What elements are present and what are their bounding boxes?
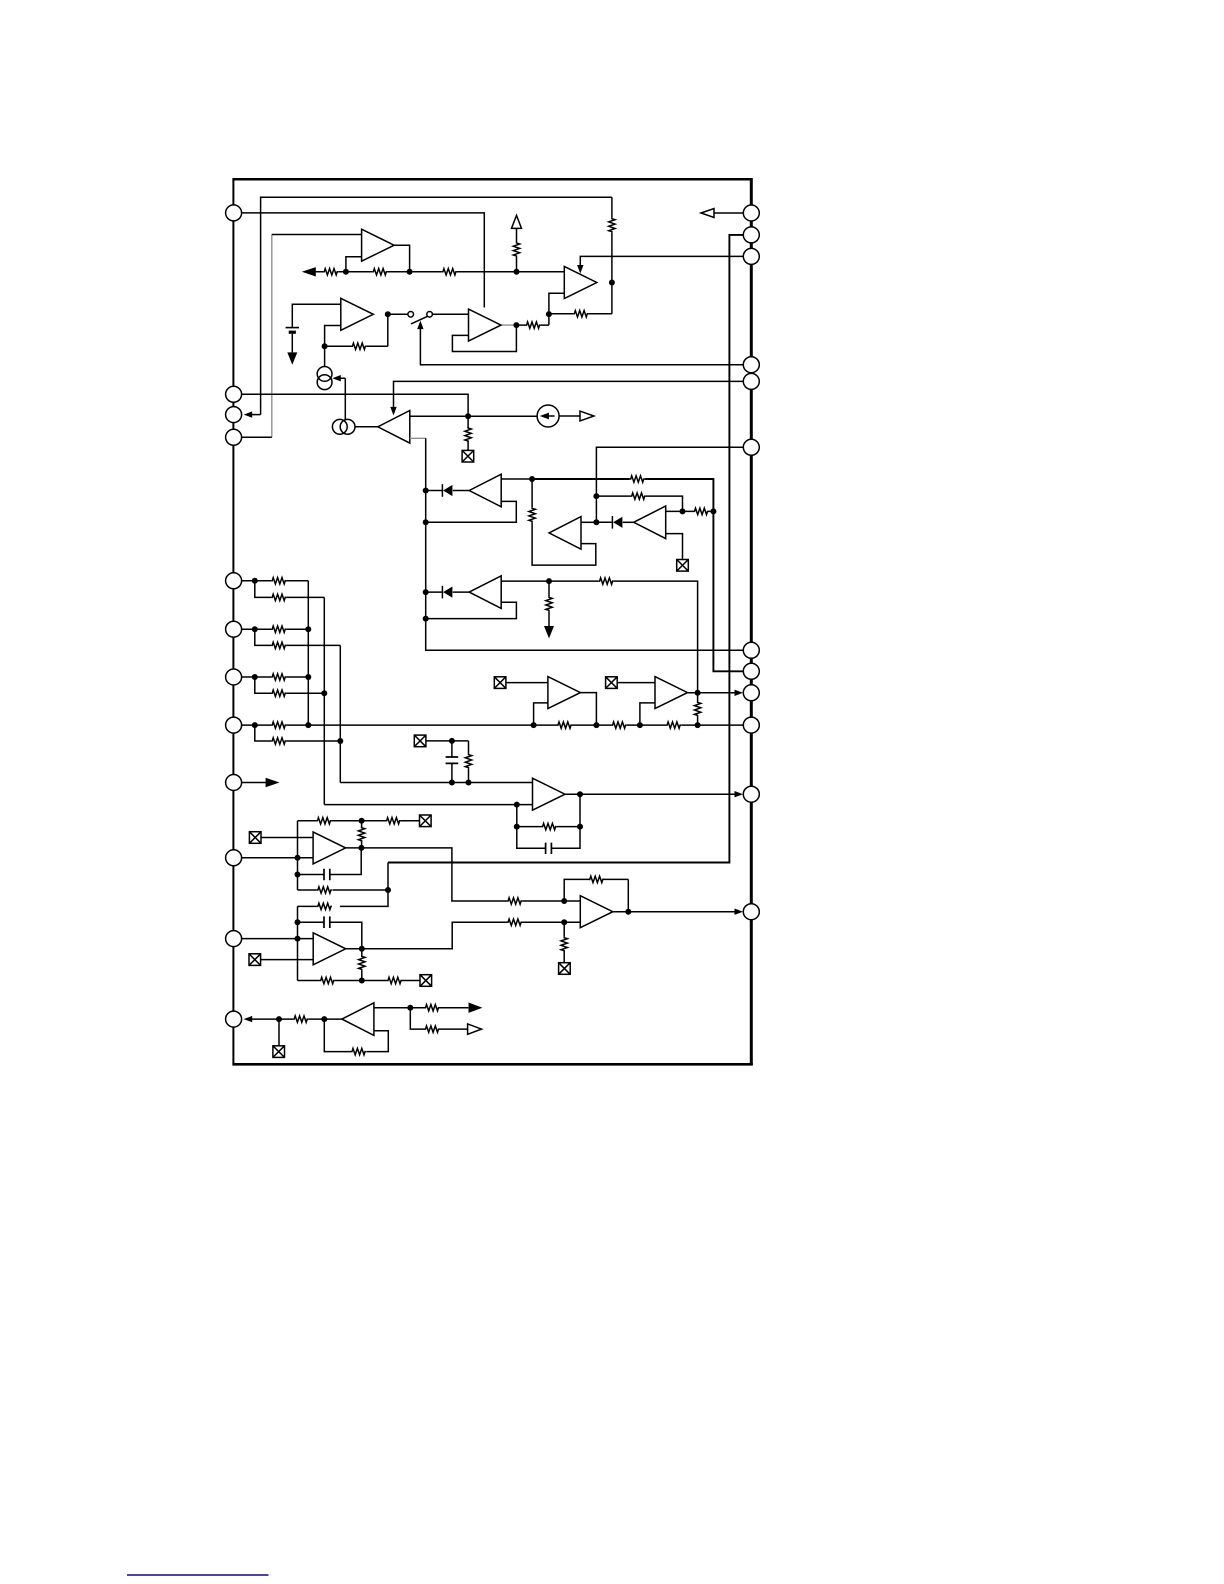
pin 5 (226, 573, 242, 589)
node y581 (546, 578, 552, 584)
op-amp U11 buffer B (655, 677, 688, 709)
resistor R29 (542, 823, 557, 829)
pin K right (743, 786, 759, 802)
wire diode D2 net (596, 521, 612, 523)
wire U9 wrap (426, 602, 517, 618)
ground arrow (287, 352, 297, 364)
resistor R7 (526, 322, 541, 328)
arrow down into U4 (577, 265, 583, 274)
wire U15 fb (564, 879, 628, 911)
resistor R16 (271, 578, 286, 584)
wire U12 fb resistor net (517, 794, 580, 826)
wire node479 down through R11 (532, 479, 596, 565)
wire line y804 to U12 lower (324, 804, 532, 806)
node pin7 lower join (321, 690, 327, 696)
diode D1 (442, 484, 452, 497)
wire node to resistor R9 (467, 416, 469, 450)
resistor R33 (507, 898, 522, 904)
node U16 out (321, 1016, 327, 1022)
arrow up switch control (417, 321, 423, 330)
node U12 lower input (514, 802, 520, 808)
resistor R3 (442, 269, 457, 275)
pad X1 (462, 450, 474, 462)
resistor R31 (358, 827, 364, 842)
pin F right (743, 439, 759, 455)
node pin8 join (305, 722, 311, 728)
wire U11 wrap to y725 (640, 703, 655, 725)
wire U2 fb resistor leads (325, 314, 388, 346)
battery plate long (286, 327, 299, 329)
resistor R38 (359, 955, 365, 970)
wire U10 wrap to y725 (534, 703, 548, 725)
resistor R12 (631, 493, 646, 499)
pin 7 (226, 669, 242, 685)
node diode junction (593, 519, 599, 525)
pin H right (743, 663, 759, 679)
current source CS2 circle a (332, 419, 347, 434)
wire fb top to pad X7 (362, 820, 420, 822)
wire U15 out to pin L (613, 911, 736, 913)
node U1 out (407, 269, 413, 275)
wire cap C2 net (298, 848, 362, 875)
pin C right (743, 248, 759, 264)
wire pin 6 upper branch (242, 628, 309, 630)
wire CS1 from U2 fb node (324, 346, 326, 366)
op-amp U9 limiter2 (469, 576, 501, 609)
pad X8 (249, 954, 261, 966)
wire pin 10 to U13 lower input (242, 857, 314, 859)
wire switch control from pin D (420, 329, 743, 365)
resistor R4 (513, 242, 519, 257)
resistor R43 (425, 1026, 440, 1032)
op-amp U4 (564, 267, 597, 299)
wire pad X6 to U13 (261, 837, 313, 839)
resistor R10 (630, 476, 645, 482)
IC outline border (232, 179, 234, 1064)
wire U5 upper input (410, 415, 468, 417)
node u8 upper (680, 508, 686, 514)
op-amp U6 limiter (469, 474, 501, 507)
node U15 out (625, 909, 631, 915)
wire cap C1 stems (451, 741, 453, 783)
pad X2 (677, 560, 689, 572)
pad X6 (249, 832, 261, 844)
wire rail to diode D1 (426, 490, 443, 492)
resistor R6 (573, 311, 588, 317)
wire pad to U11 (617, 682, 655, 684)
footer link rule (127, 1574, 269, 1576)
current source CS3 circle (537, 405, 559, 427)
diode D2 (612, 516, 622, 529)
wire cap C3 net (298, 922, 362, 949)
node chain/bias (514, 269, 520, 275)
node pin8 (252, 722, 258, 728)
pin L right (743, 904, 759, 920)
current source CS1 circle b (317, 375, 332, 390)
wire U4 inverting wrap (549, 293, 564, 325)
wire R38 stems (361, 949, 363, 981)
wire node to CS3 (468, 415, 537, 417)
battery plate short (289, 331, 296, 334)
resistor R23 (271, 738, 286, 744)
node U14 cap tee (295, 919, 301, 925)
node fb left (514, 824, 520, 830)
node pin6 (252, 626, 258, 632)
wire supply stem (516, 228, 518, 271)
resistor R8 (351, 343, 366, 349)
wire line y782 to U12 upper (340, 782, 532, 784)
switch SW1 contact right (427, 312, 433, 318)
op-amp U2 (341, 298, 374, 330)
wire U3 out gray stub (500, 324, 516, 326)
wire U6 wrap (426, 501, 517, 522)
diode D3 (442, 586, 452, 599)
resistor R22 (271, 722, 286, 728)
op-amp U15 (580, 896, 613, 928)
arrow into pin 12 (244, 1016, 253, 1022)
capacitor C4 (546, 843, 552, 854)
node U11 wrap (637, 722, 643, 728)
pin 12 (226, 1011, 242, 1027)
resistor R45 (317, 887, 332, 893)
arrow left into CS1 (332, 375, 341, 381)
wire U3out to R7 to tee (516, 324, 548, 326)
resistor R19 (271, 642, 286, 648)
node rail diode 2 (423, 589, 429, 595)
wire U14 bottom fb line (298, 980, 421, 982)
resistor R25 (612, 722, 627, 728)
wire pin 2 line (242, 394, 469, 416)
wire pin 4 stub (242, 436, 272, 438)
wire pin 12 line (252, 1018, 342, 1020)
wire pin 7 lower branch (255, 677, 325, 693)
node R27 bottom (695, 722, 701, 728)
node fb right (577, 824, 583, 830)
op-amp U10 buffer A (548, 677, 581, 709)
arrow into pin 3 (252, 414, 261, 416)
resistor R11 (529, 507, 535, 522)
node pin7 (252, 674, 258, 680)
pad X7 (420, 815, 432, 827)
resistor R18 (271, 626, 286, 632)
wire D1 to U6 (453, 490, 469, 492)
node RC bottom res (466, 780, 472, 786)
node pin5 (252, 578, 258, 584)
pad X9 (420, 975, 432, 987)
node y496 (593, 493, 599, 499)
pin 1 (226, 205, 242, 221)
pin 3 (226, 407, 242, 423)
wire U14 out right and up (346, 922, 581, 949)
wire main rail down left (426, 438, 744, 650)
open arrow right (monitor out) (580, 411, 594, 421)
op-amp U1 (362, 229, 395, 261)
wire net line2 from pin 3 top corner (261, 197, 612, 414)
wire pin 8 upper branch (242, 724, 309, 726)
node U2 out (385, 311, 391, 317)
capacitor C1 (446, 757, 459, 763)
wire U1 output (394, 245, 410, 272)
op-amp U13 (313, 832, 346, 864)
pin E right (743, 373, 759, 389)
wire U16 fb loop (324, 1019, 388, 1052)
wire U13 top fb line (298, 820, 362, 822)
arrow into pin L (735, 909, 744, 915)
resistor R28 (465, 754, 471, 769)
wire pin A arrow line (714, 212, 743, 214)
arrow into pin I (735, 690, 744, 696)
pin 11 (226, 931, 242, 947)
wire U10 out (581, 693, 597, 726)
resistor R15 (546, 596, 552, 611)
wire U16 second line (410, 1008, 467, 1029)
wire U12 out to pin K (565, 793, 735, 795)
node pin8 lower join (337, 738, 343, 744)
node U14 out (359, 946, 365, 952)
op-amp U5 VCA (378, 411, 410, 444)
pin 10 (226, 850, 242, 866)
wire y890 resistor line (298, 889, 389, 891)
arrow left output (big filled) (302, 267, 316, 276)
current source CS1 circle a (317, 367, 332, 382)
node fb top (359, 818, 365, 824)
switch SW1 contact left (408, 312, 414, 318)
node fb bottom (359, 978, 365, 984)
resistor R39 (320, 977, 335, 983)
resistor R35 (589, 876, 604, 882)
resistor R37 (317, 903, 332, 909)
node U13 input (295, 855, 301, 861)
wire pin 9 stub (242, 782, 267, 784)
node U15 lower in (561, 919, 567, 925)
resistor R32 (386, 818, 401, 824)
pin G right (743, 642, 759, 658)
wire y862 corner down (387, 863, 389, 891)
node pin7 join (305, 674, 311, 680)
wire R31 stems (361, 821, 363, 848)
wire line2 drop + resistor R5 stem (611, 197, 613, 313)
resistor R26 (666, 722, 681, 728)
pin 8 (226, 717, 242, 733)
node U13 cap tee (295, 872, 301, 878)
wire rail to diode D3 (426, 591, 443, 593)
node pad tee (276, 1016, 282, 1022)
node U15 upper in (561, 898, 567, 904)
arrow into pin K (735, 791, 744, 797)
node fb tee (546, 311, 552, 317)
node U4 out (609, 280, 615, 286)
wire U4 fb (549, 313, 612, 315)
op-amp U8 (634, 506, 666, 539)
node RC top (449, 738, 455, 744)
wire U13 out right and down (346, 848, 581, 901)
resistor R5 (609, 218, 615, 233)
wire U3 unity wrap (452, 325, 516, 351)
wire U2 upper input (292, 304, 341, 327)
resistor R13 (694, 508, 709, 514)
wire U1 upper input (272, 234, 362, 236)
wire CS3 to open arrow (559, 415, 580, 417)
wire pad X3 to RC (426, 741, 469, 783)
resistor R36 (561, 937, 567, 952)
node rail wrap 1 (423, 519, 429, 525)
resistor R21 (271, 690, 286, 696)
wire pad X11 stem (278, 1019, 280, 1046)
resistor R14 (599, 578, 614, 584)
wire battery to ground (291, 334, 293, 353)
node U14 input (295, 936, 301, 942)
node U10 out join (593, 722, 599, 728)
op-amp U3 (469, 309, 502, 341)
pin D right (743, 357, 759, 373)
resistor R41 (293, 1016, 308, 1022)
wire y479 to rail x713 (532, 479, 743, 671)
resistor R30 (316, 818, 331, 824)
wire U1 inverting wrap (346, 257, 362, 272)
wire VCA control from pin E (394, 381, 744, 407)
op-amp U14 (313, 933, 346, 965)
node rail x713 (710, 508, 716, 514)
wire pin 8 lower branch (255, 725, 341, 741)
pad X11 (273, 1046, 285, 1058)
wire y862 line to right rail (388, 235, 743, 863)
pin I right (743, 685, 759, 701)
resistor R27 (694, 701, 700, 716)
wire pin 6 lower branch (255, 629, 341, 782)
wire pin C line to U4 (580, 256, 743, 265)
arrow big filled right (469, 1003, 483, 1013)
resistor R2 (372, 269, 387, 275)
node U2 fb (322, 343, 328, 349)
wire R36 stems (563, 922, 565, 963)
resistor R9 (465, 427, 471, 442)
node U3 out (513, 322, 519, 328)
wire resistor chain y=271.8 (315, 271, 564, 273)
wire U5 lower input connector (410, 437, 426, 439)
wire D3 to U9 (453, 591, 469, 593)
open arrow up (supply) (512, 215, 522, 228)
node pin6 join (305, 626, 311, 632)
resistor R44 (351, 1048, 366, 1054)
wire pad to U10 (506, 682, 548, 684)
pad X10 (559, 963, 571, 975)
arrow down into U5 (390, 407, 396, 416)
pin A right (743, 205, 759, 221)
wire y890 to y906 loop (298, 890, 389, 981)
wire D2 to U8 apex (623, 521, 634, 523)
pad X5 (606, 677, 618, 689)
pin B right (743, 227, 759, 243)
node rail wrap 2 (423, 616, 429, 622)
wire gray vertical pin 4 to op-amp U1 input (271, 235, 273, 438)
resistor R17 (271, 594, 286, 600)
wire U8 lower input to pad (666, 534, 683, 560)
pin 6 (226, 621, 242, 637)
wire CS1 control (338, 378, 346, 420)
wire y496 resistor R12 to corner (596, 496, 682, 511)
node U1 fb (343, 269, 349, 275)
wire U2 inverting wrap (325, 326, 341, 347)
wire R27 stems (697, 693, 699, 725)
wire U8 upper to rail via R13 (683, 510, 714, 512)
wire CS2 to U5 output (355, 426, 378, 428)
open arrow right bottom (468, 1024, 482, 1034)
capacitor C2 (324, 869, 330, 881)
node rail diode 1 (423, 488, 429, 494)
arrow right pin 9 (266, 778, 280, 787)
node U11 out (695, 690, 701, 696)
op-amp U12 summing (533, 778, 566, 810)
wire R15 stem (548, 581, 550, 626)
wire summing line y725 (308, 724, 743, 726)
capacitor C3 (324, 916, 330, 928)
wire U8 upper input (666, 510, 683, 512)
open arrow left pin A (701, 209, 714, 218)
current source CS3 inner arrow (545, 415, 555, 417)
resistor R42 (425, 1005, 440, 1011)
wire pin 5 upper branch (242, 581, 309, 725)
resistor R20 (271, 674, 286, 680)
node U16 upper (407, 1005, 413, 1011)
wire switch to U3 (432, 313, 468, 315)
op-amp U7 (549, 517, 581, 550)
pad X4 (494, 677, 506, 689)
wire pin 11 to U14 (242, 938, 314, 940)
wire U13 input rail vertical (297, 821, 299, 890)
wire node up to pin F line (596, 447, 743, 522)
node U12 out (577, 791, 583, 797)
pin J right (743, 717, 759, 733)
wire U9 upper input line y581 (501, 581, 697, 693)
pin 2 (226, 386, 242, 402)
wire U6 upper input line y479 (501, 478, 532, 480)
ground arrow 2 (544, 626, 554, 638)
current source CS2 circle b (340, 419, 355, 434)
op-amp U16 (342, 1003, 374, 1036)
wire U11 out to pin I (688, 692, 736, 694)
node U13 out (358, 845, 364, 851)
wire net VCC left from pin 1 (242, 213, 485, 308)
node y890 (385, 887, 391, 893)
resistor R34 (507, 919, 522, 925)
pad X3 feed (414, 735, 426, 747)
switch SW1 lever (411, 316, 427, 324)
resistor R40 (387, 977, 402, 983)
pin 9 (226, 775, 242, 791)
node y479 (529, 476, 535, 482)
wire U12 fb cap net (517, 827, 580, 849)
node RC bottom cap (449, 780, 455, 786)
resistor R1 (323, 269, 338, 275)
wire U16 upper input line (374, 1007, 468, 1009)
pin 4 (226, 429, 242, 445)
node U10 wrap (531, 722, 537, 728)
node U5 upper input (465, 413, 471, 419)
wire pad X8 to U14 lower input (261, 959, 314, 961)
resistor R24 (557, 722, 572, 728)
wire pin 7 upper branch (242, 676, 309, 678)
wire pin 5 lower branch (255, 581, 325, 805)
wire U7 upper input to node (581, 521, 596, 523)
wire U2 out to switch (388, 313, 408, 315)
